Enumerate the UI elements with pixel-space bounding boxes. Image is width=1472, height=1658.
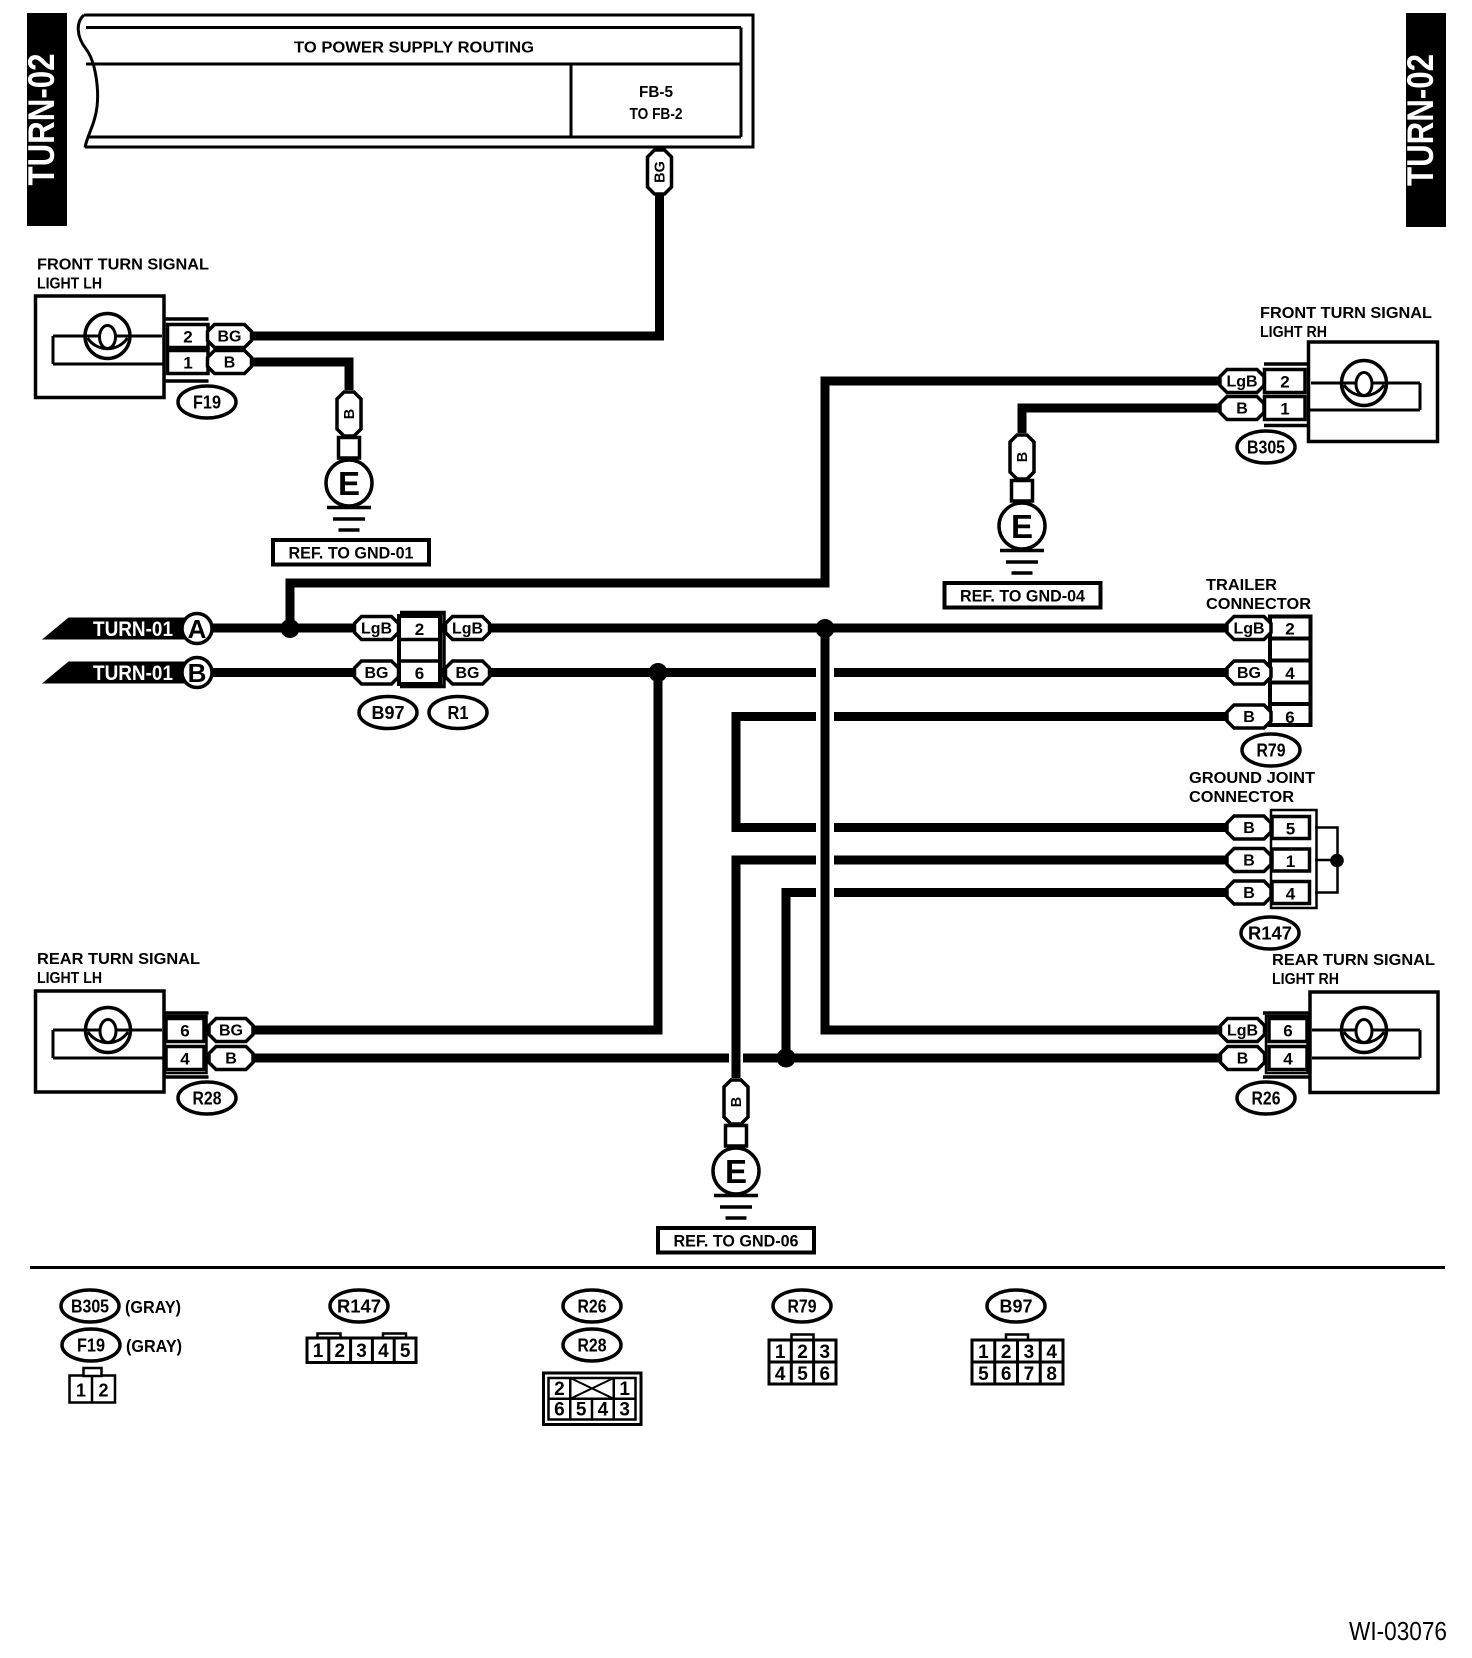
- svg-text:6: 6: [415, 664, 424, 683]
- svg-text:5: 5: [1286, 820, 1295, 839]
- svg-text:6: 6: [1285, 708, 1294, 727]
- svg-text:1: 1: [1280, 400, 1289, 419]
- svg-text:REAR TURN SIGNAL: REAR TURN SIGNAL: [1272, 952, 1435, 969]
- svg-text:B: B: [1237, 1051, 1249, 1068]
- svg-text:WI-03076: WI-03076: [1349, 1616, 1447, 1646]
- svg-text:2: 2: [183, 328, 192, 347]
- svg-text:4: 4: [775, 1364, 786, 1385]
- svg-text:4: 4: [598, 1400, 609, 1421]
- svg-text:3: 3: [1024, 1342, 1035, 1363]
- svg-text:R147: R147: [337, 1297, 381, 1317]
- svg-text:REF. TO GND-06: REF. TO GND-06: [674, 1233, 799, 1251]
- svg-text:B: B: [1243, 820, 1255, 837]
- svg-text:BG: BG: [1237, 665, 1261, 682]
- svg-text:1: 1: [183, 354, 192, 373]
- svg-text:A: A: [188, 614, 207, 644]
- svg-text:B: B: [1243, 885, 1255, 902]
- svg-text:2: 2: [98, 1381, 108, 1401]
- svg-text:1: 1: [76, 1381, 86, 1401]
- svg-text:R147: R147: [1248, 924, 1292, 944]
- svg-text:B97: B97: [1000, 1297, 1033, 1317]
- svg-text:6: 6: [1001, 1364, 1012, 1385]
- svg-text:4: 4: [180, 1050, 190, 1069]
- svg-text:B: B: [342, 409, 358, 419]
- svg-text:6: 6: [180, 1022, 189, 1041]
- svg-text:BG: BG: [653, 161, 669, 183]
- svg-text:B305: B305: [71, 1297, 109, 1317]
- svg-text:B: B: [1236, 401, 1248, 418]
- svg-text:FRONT TURN SIGNAL: FRONT TURN SIGNAL: [1260, 305, 1432, 322]
- svg-text:(GRAY): (GRAY): [126, 1336, 182, 1356]
- svg-text:4: 4: [378, 1341, 389, 1362]
- svg-text:R28: R28: [193, 1089, 222, 1109]
- svg-text:TURN-02: TURN-02: [1400, 54, 1441, 186]
- svg-text:REF. TO GND-04: REF. TO GND-04: [960, 588, 1086, 606]
- svg-text:B: B: [1015, 452, 1031, 462]
- svg-text:B: B: [1243, 853, 1255, 870]
- svg-text:CONNECTOR: CONNECTOR: [1206, 596, 1311, 613]
- svg-text:4: 4: [1285, 664, 1295, 683]
- svg-text:5: 5: [978, 1364, 989, 1385]
- svg-text:(GRAY): (GRAY): [125, 1297, 181, 1317]
- svg-text:F19: F19: [193, 393, 221, 413]
- svg-text:3: 3: [619, 1400, 630, 1421]
- svg-text:FB-5: FB-5: [639, 84, 673, 101]
- svg-text:BG: BG: [365, 665, 389, 682]
- svg-text:LIGHT RH: LIGHT RH: [1260, 324, 1327, 341]
- svg-text:6: 6: [820, 1364, 831, 1385]
- svg-text:1: 1: [1286, 852, 1295, 871]
- svg-text:TURN-01: TURN-01: [93, 618, 173, 641]
- svg-text:BG: BG: [456, 665, 480, 682]
- svg-text:B97: B97: [372, 703, 405, 723]
- svg-text:6: 6: [554, 1400, 565, 1421]
- svg-text:8: 8: [1046, 1364, 1057, 1385]
- svg-text:E: E: [1011, 508, 1033, 545]
- svg-text:1: 1: [775, 1342, 786, 1363]
- svg-text:2: 2: [1285, 620, 1294, 639]
- svg-text:LIGHT RH: LIGHT RH: [1272, 971, 1339, 988]
- svg-text:1: 1: [978, 1342, 989, 1363]
- svg-text:3: 3: [820, 1342, 831, 1363]
- svg-text:5: 5: [400, 1341, 411, 1362]
- svg-text:BG: BG: [219, 1023, 243, 1040]
- svg-text:R79: R79: [1257, 741, 1286, 761]
- svg-text:LgB: LgB: [1226, 374, 1257, 391]
- svg-text:4: 4: [1283, 1050, 1293, 1069]
- svg-text:R79: R79: [788, 1297, 817, 1317]
- svg-text:B: B: [729, 1097, 745, 1107]
- svg-text:2: 2: [335, 1341, 346, 1362]
- svg-text:TURN-01: TURN-01: [93, 662, 173, 685]
- svg-text:F19: F19: [77, 1336, 105, 1356]
- svg-text:B: B: [224, 355, 236, 372]
- svg-text:2: 2: [554, 1379, 565, 1400]
- svg-text:LIGHT LH: LIGHT LH: [37, 970, 102, 987]
- svg-text:4: 4: [1046, 1342, 1057, 1363]
- svg-text:REAR TURN SIGNAL: REAR TURN SIGNAL: [37, 951, 200, 968]
- svg-text:2: 2: [1001, 1342, 1012, 1363]
- svg-text:TO FB-2: TO FB-2: [630, 106, 683, 123]
- svg-text:LgB: LgB: [361, 621, 392, 638]
- svg-text:E: E: [725, 1153, 747, 1190]
- svg-text:1: 1: [313, 1341, 324, 1362]
- svg-text:TRAILER: TRAILER: [1206, 577, 1277, 594]
- svg-text:TURN-02: TURN-02: [21, 54, 62, 186]
- svg-text:LgB: LgB: [1227, 1023, 1258, 1040]
- svg-text:R26: R26: [578, 1297, 607, 1317]
- svg-text:LgB: LgB: [1233, 621, 1264, 638]
- svg-text:5: 5: [797, 1364, 808, 1385]
- svg-text:CONNECTOR: CONNECTOR: [1189, 789, 1294, 806]
- svg-text:2: 2: [415, 620, 424, 639]
- svg-text:2: 2: [797, 1342, 808, 1363]
- svg-text:LIGHT LH: LIGHT LH: [37, 276, 102, 293]
- svg-text:4: 4: [1286, 885, 1296, 904]
- svg-text:GROUND JOINT: GROUND JOINT: [1189, 770, 1315, 787]
- svg-text:FRONT TURN SIGNAL: FRONT TURN SIGNAL: [37, 257, 209, 274]
- svg-text:1: 1: [619, 1379, 630, 1400]
- svg-text:LgB: LgB: [452, 621, 483, 638]
- svg-text:E: E: [338, 465, 360, 502]
- svg-text:REF. TO GND-01: REF. TO GND-01: [289, 545, 414, 563]
- svg-text:B: B: [1243, 709, 1255, 726]
- svg-text:6: 6: [1283, 1022, 1292, 1041]
- svg-text:B: B: [188, 658, 207, 688]
- svg-text:R26: R26: [1252, 1089, 1281, 1109]
- svg-text:2: 2: [1280, 373, 1289, 392]
- svg-text:TO POWER SUPPLY ROUTING: TO POWER SUPPLY ROUTING: [294, 40, 534, 57]
- svg-text:R1: R1: [448, 703, 469, 723]
- svg-text:B305: B305: [1247, 438, 1285, 458]
- svg-text:5: 5: [576, 1400, 587, 1421]
- svg-text:7: 7: [1024, 1364, 1035, 1385]
- svg-text:3: 3: [356, 1341, 367, 1362]
- svg-text:R28: R28: [578, 1336, 607, 1356]
- svg-text:B: B: [225, 1051, 237, 1068]
- svg-text:BG: BG: [218, 329, 242, 346]
